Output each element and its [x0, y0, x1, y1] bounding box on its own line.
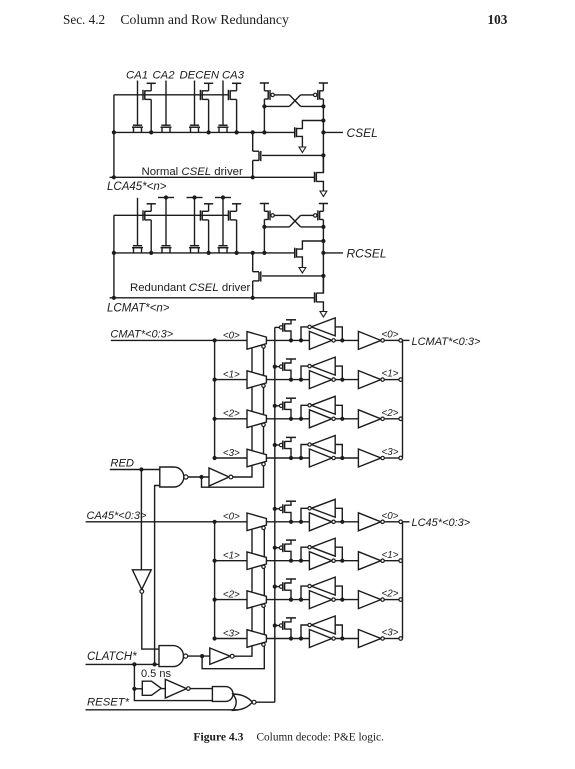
wire output row 3 (LC45) — [384, 638, 399, 640]
node reset line junction row 2 (LC45) — [273, 585, 277, 589]
node feedback junction left row 0 (LC45) — [299, 520, 303, 524]
node left drain junction (Normal CSEL driver) — [262, 104, 266, 108]
latch feedback inverter row 2 (LCMAT) — [311, 396, 335, 414]
wire input column 4 vertical (Redundant CSEL driver) — [222, 198, 224, 246]
node PMOS drain junction row 0 (LC45) — [289, 520, 293, 524]
wire input column 2 vertical (Redundant CSEL driver) — [165, 198, 167, 246]
wire feedback output row 1 (LC45) — [301, 547, 308, 561]
svg-text:CA45*<0:3>: CA45*<0:3> — [87, 510, 148, 522]
wire NMOS chain (Redundant CSEL driver) — [114, 252, 295, 254]
output inverter row 2 (LC45) — [358, 591, 381, 609]
node output junction CSEL — [321, 130, 325, 134]
wire latch output row 3 (LCMAT) — [335, 457, 358, 459]
node MF source junction (Normal CSEL driver) — [251, 175, 255, 179]
terminal circle output row 3 (LCMAT) — [399, 456, 403, 460]
wire MF gate to rail (Redundant CSEL driver) — [262, 275, 323, 277]
tri-state clock bubble row 0 (LC45) — [262, 526, 265, 529]
wire MF source to bottom net (Redundant CSEL driver) — [252, 281, 254, 298]
wire cross-couple right gate (Normal CSEL driver) — [301, 94, 314, 96]
tri-state clock bubble row 3 (LC45) — [262, 643, 265, 646]
wire G1 lower input from CLATCH* — [155, 486, 160, 665]
wire latch output row 2 (LC45) — [335, 599, 358, 601]
svg-text:RCSEL: RCSEL — [347, 247, 387, 261]
node input bus junction row 1 (LCMAT) — [213, 378, 217, 382]
ground keeper (Redundant CSEL driver) — [299, 268, 306, 274]
wire P3 drain to chain (Normal CSEL driver) — [236, 99, 238, 132]
wire PMOS gate rail (Redundant CSEL driver) — [114, 214, 228, 216]
wire left drain rail (Redundant CSEL driver) — [264, 226, 289, 228]
wire delay output to and gate — [190, 688, 212, 690]
svg-text:CLATCH*: CLATCH* — [87, 651, 137, 663]
node MF drain chain junction (Normal CSEL driver) — [251, 130, 255, 134]
power VDD T left of latch pair (Redundant CSEL driver) — [260, 203, 269, 205]
wire output rail vertical (Redundant CSEL driver) — [322, 227, 324, 293]
wire P1 drain to chain (Normal CSEL driver) — [150, 99, 152, 132]
svg-text:<2>: <2> — [382, 408, 399, 419]
wire output row 2 (LCMAT) — [384, 418, 399, 420]
transistor reset PMOS row 2 (LCMAT) — [279, 404, 282, 407]
wire U4 to U5 — [161, 688, 165, 690]
inverter U1 (RED) — [209, 468, 229, 486]
node reset line junction row 3 (LC45) — [273, 623, 277, 627]
node latch output junction row 2 (LC45) — [340, 598, 344, 602]
wire chain to MF drain (Redundant CSEL driver) — [252, 253, 254, 272]
wire MF source to bottom net (Normal CSEL driver) — [252, 160, 254, 177]
wire CMAT* bus vertical — [214, 340, 216, 458]
svg-text:<1>: <1> — [223, 370, 240, 381]
wire P3 drain to chain (Redundant CSEL driver) — [236, 220, 238, 253]
node input bus junction row 0 (LC45) — [213, 520, 217, 524]
transistor reset PMOS row 0 (LC45) — [279, 507, 282, 510]
wire latch output row 0 (LCMAT) — [335, 339, 358, 341]
wire cross-couple diagonal 2 (Redundant CSEL driver) — [289, 215, 300, 227]
node P2 drain junction (Normal CSEL driver) — [207, 130, 211, 134]
wire RED to delay inverter — [140, 470, 142, 570]
tri-state inverter row 2 (LC45) — [247, 591, 266, 609]
latch forward inverter row 2 (LCMAT) — [309, 410, 332, 428]
node feedback junction left row 2 (LC45) — [299, 598, 303, 602]
wire NMOS chain (Normal CSEL driver) — [114, 131, 295, 133]
wire input CA2 vertical (Normal CSEL driver) — [165, 81, 167, 126]
wire tri-state output row 0 (LC45) — [266, 521, 309, 523]
tri-state inverter row 3 (LCMAT) — [247, 449, 266, 467]
svg-text:LC45*<0:3>: LC45*<0:3> — [412, 517, 471, 529]
transistor M2 NMOS pass (Normal CSEL driver) — [161, 126, 172, 128]
wire PMOS gate rail (Normal CSEL driver) — [114, 94, 228, 96]
node latch output junction row 1 (LC45) — [340, 559, 344, 563]
node latch output junction row 3 (LCMAT) — [340, 456, 344, 460]
transistor M2 NMOS pass (Redundant CSEL driver) — [161, 247, 172, 249]
transistor reset PMOS row 1 (LCMAT) — [279, 365, 282, 368]
node reset line junction row 1 (LCMAT) — [273, 365, 277, 369]
nor G4 output bubble — [252, 700, 256, 704]
svg-text:LCA45*<n>: LCA45*<n> — [107, 181, 167, 193]
wire left drain to chain (Normal CSEL driver) — [263, 106, 265, 132]
wire output row 1 (LCMAT) — [384, 379, 399, 381]
transistor P1 PMOS pull-up (Redundant CSEL driver) — [147, 203, 156, 205]
wire reset PMOS gate lead row 2 (LCMAT) — [275, 405, 280, 407]
wire inverted clock line group1 (from G1) — [202, 348, 264, 487]
node right drain junction (Normal CSEL driver) — [321, 104, 325, 108]
wire right drain rail (Redundant CSEL driver) — [301, 226, 324, 228]
latch feedback inverter row 3 (LCMAT) — [311, 436, 335, 454]
wire input row 2 (LC45) — [215, 599, 247, 601]
svg-text:CSEL: CSEL — [347, 126, 378, 140]
wire tri-state output row 2 (LC45) — [266, 599, 309, 601]
wire reset PMOS drain row 2 (LCMAT) — [285, 409, 291, 418]
wire cross-couple diagonal 1 (Normal CSEL driver) — [289, 95, 300, 107]
wire chain to MF drain (Normal CSEL driver) — [252, 132, 254, 151]
svg-text:0.5 ns: 0.5 ns — [141, 668, 171, 680]
wire input row 2 (LCMAT) — [215, 418, 247, 420]
node output junction RCSEL — [321, 251, 325, 255]
transistor PR cross-coupled PMOS right (Redundant CSEL driver) — [322, 204, 324, 212]
svg-text:LCMAT*<0:3>: LCMAT*<0:3> — [412, 336, 481, 348]
node input bus junction row 3 (LCMAT) — [213, 456, 217, 460]
svg-text:CA2: CA2 — [153, 70, 176, 82]
wire left rail vertical (Redundant CSEL driver) — [113, 215, 115, 297]
wire feedback output row 0 (LC45) — [301, 508, 308, 522]
node input bus junction row 2 (LC45) — [213, 598, 217, 602]
wire reset PMOS gate lead row 3 (LCMAT) — [275, 444, 280, 446]
wire latch output row 1 (LCMAT) — [335, 379, 358, 381]
svg-text:<3>: <3> — [382, 628, 399, 639]
transistor reset PMOS row 3 (LCMAT) — [279, 443, 282, 446]
node P3 drain junction (Redundant CSEL driver) — [235, 251, 239, 255]
wire tri-state output row 3 (LC45) — [266, 638, 309, 640]
and gate G3 — [212, 687, 233, 702]
nor gate G4 — [233, 694, 253, 710]
wire bottom net (Redundant CSEL driver) — [110, 297, 315, 299]
wire input column 3 vertical (Redundant CSEL driver) — [194, 198, 196, 246]
tri-state clock bubble row 0 (LCMAT) — [262, 345, 265, 348]
wire tri-state output row 2 (LCMAT) — [266, 418, 309, 420]
svg-text:<3>: <3> — [223, 448, 240, 459]
wire feedback input row 0 (LCMAT) — [335, 327, 342, 341]
node reset line junction row 3 (LCMAT) — [273, 443, 277, 447]
svg-text:DECEN: DECEN — [180, 70, 220, 82]
wire feedback output row 2 (LCMAT) — [301, 405, 308, 419]
node reset line junction row 0 (LC45) — [273, 507, 277, 511]
latch feedback inverter row 3 (LC45) — [311, 616, 335, 634]
wire clock line group1 (from U1) — [233, 348, 252, 477]
tri-state inverter row 1 (LC45) — [247, 552, 266, 570]
svg-text:<2>: <2> — [223, 409, 240, 420]
transistor P3 PMOS pull-up (Normal CSEL driver) — [232, 82, 241, 84]
svg-text:<3>: <3> — [382, 447, 399, 458]
buffer U4 (delay) — [142, 681, 161, 695]
output inverter row 3 (LCMAT) — [358, 449, 381, 467]
wire feedback input row 1 (LCMAT) — [335, 366, 342, 380]
wire cross-couple diagonal 1 (Redundant CSEL driver) — [289, 215, 300, 227]
wire cross-couple right gate (Redundant CSEL driver) — [301, 214, 314, 216]
wire reset PMOS gate lead row 2 (LC45) — [275, 586, 280, 588]
svg-text:<1>: <1> — [223, 551, 240, 562]
wire input row 0 (LCMAT) — [111, 339, 247, 341]
svg-text:103: 103 — [488, 12, 508, 27]
svg-text:Sec. 4.2: Sec. 4.2 — [63, 12, 105, 27]
wire clock line group2 (from U3) — [234, 529, 252, 656]
node PMOS drain junction row 3 (LC45) — [289, 636, 293, 640]
wire reset PMOS drain row 3 (LCMAT) — [285, 449, 291, 458]
wire reset PMOS drain row 3 (LC45) — [285, 629, 291, 638]
transistor M3 NMOS pass (Normal CSEL driver) — [189, 126, 200, 128]
wire output row 0 (LC45) — [384, 521, 399, 523]
wire RED input — [110, 469, 160, 471]
svg-text:<1>: <1> — [382, 550, 399, 561]
ground MB (Normal CSEL driver) — [320, 191, 327, 197]
transistor MB pull-down NMOS (Normal CSEL driver) — [314, 172, 316, 182]
wire input row 3 (LCMAT) — [215, 457, 247, 459]
node MF drain chain junction (Redundant CSEL driver) — [251, 251, 255, 255]
node keeper drain junction (Normal CSEL driver) — [321, 118, 325, 122]
node delay input junction — [132, 687, 136, 691]
node MF gate rail junction (Normal CSEL driver) — [321, 153, 325, 157]
wire cross-couple diagonal 2 (Normal CSEL driver) — [289, 95, 300, 107]
transistor PL cross-coupled PMOS left (Redundant CSEL driver) — [263, 204, 265, 212]
latch feedback inverter row 0 (LC45) — [311, 499, 335, 517]
wire LC45* output bus vertical — [402, 522, 404, 639]
ground MB (Redundant CSEL driver) — [320, 312, 327, 318]
transistor M3 NMOS pass (Redundant CSEL driver) — [189, 247, 200, 249]
node reset line junction row 2 (LCMAT) — [273, 404, 277, 408]
wire P2 drain to chain (Redundant CSEL driver) — [208, 220, 210, 253]
latch feedback inverter row 2 (LC45) — [311, 577, 335, 595]
transistor MF feedback NMOS (Normal CSEL driver) — [253, 150, 259, 152]
node keeper drain junction (Redundant CSEL driver) — [321, 239, 325, 243]
wire input row 1 (LCMAT) — [215, 379, 247, 381]
wire input column 1 vertical (Redundant CSEL driver) — [137, 198, 139, 246]
wire feedback output row 2 (LC45) — [301, 586, 308, 600]
wire output row 1 (LC45) — [384, 560, 399, 562]
transistor M1 NMOS pass (Normal CSEL driver) — [132, 126, 143, 128]
node bottom-left junction (Normal CSEL driver) — [112, 175, 116, 179]
input tap T-bar column 4 (Redundant CSEL driver) — [215, 197, 231, 199]
wire tri-state output row 0 (LCMAT) — [266, 339, 309, 341]
wire LCMAT* output bus vertical — [402, 340, 404, 458]
svg-text:<1>: <1> — [382, 369, 399, 380]
nand G2 output bubble — [184, 654, 188, 658]
wire tri-state output row 3 (LCMAT) — [266, 457, 309, 459]
latch feedback inverter row 1 (LC45) — [311, 538, 335, 556]
wire input row 3 (LC45) — [215, 638, 247, 640]
wire CLATCH* to delay buffer — [134, 664, 212, 700]
wire reset PMOS drain row 2 (LC45) — [285, 590, 291, 599]
terminal circle output row 3 (LC45) — [399, 637, 403, 641]
wire P1 drain to chain (Redundant CSEL driver) — [150, 220, 152, 253]
nand G1 output bubble — [184, 475, 188, 479]
terminal circle output row 1 (LCMAT) — [399, 378, 403, 382]
wire output row 2 (LC45) — [384, 599, 399, 601]
wire feedback output row 0 (LCMAT) — [301, 327, 308, 341]
wire input row 0 (LC45) — [86, 521, 247, 523]
node left drain chain junction (Normal CSEL driver) — [262, 130, 266, 134]
wire output rail vertical (Normal CSEL driver) — [322, 106, 324, 172]
node reset line junction row 1 (LC45) — [273, 546, 277, 550]
svg-text:RED: RED — [110, 457, 134, 469]
wire reset PMOS gate lead row 0 (LC45) — [275, 508, 280, 510]
transistor PL cross-coupled PMOS left (Normal CSEL driver) — [263, 83, 265, 91]
transistor P2 PMOS pull-up (Redundant CSEL driver) — [204, 203, 213, 205]
wire RESET* input — [86, 709, 238, 711]
wire reset PMOS gate lead row 1 (LC45) — [275, 547, 280, 549]
node latch output junction row 0 (LC45) — [340, 520, 344, 524]
tri-state inverter row 1 (LCMAT) — [247, 371, 266, 389]
svg-text:Redundant CSEL driver: Redundant CSEL driver — [130, 282, 251, 294]
wire cross-couple left gate (Normal CSEL driver) — [274, 94, 289, 96]
power VDD T right of latch pair (Redundant CSEL driver) — [319, 203, 328, 205]
node G2 output junction — [200, 654, 204, 658]
svg-text:CA1: CA1 — [126, 70, 148, 82]
tri-state clock bubble row 2 (LCMAT) — [262, 423, 265, 426]
ground keeper (Normal CSEL driver) — [299, 147, 306, 153]
svg-text:Normal CSEL driver: Normal CSEL driver — [142, 166, 243, 178]
tri-state inverter row 3 (LC45) — [247, 630, 266, 648]
input tap T-bar column 2 (Redundant CSEL driver) — [158, 197, 174, 199]
terminal circle output row 0 (LCMAT) — [399, 339, 403, 343]
transistor P2 PMOS pull-up (Normal CSEL driver) — [204, 82, 213, 84]
node left drain chain junction (Redundant CSEL driver) — [262, 251, 266, 255]
wire left drain to chain (Redundant CSEL driver) — [263, 227, 265, 253]
node latch output junction row 2 (LCMAT) — [340, 417, 344, 421]
wire G2 output — [188, 655, 210, 657]
transistor reset PMOS row 3 (LC45) — [279, 624, 282, 627]
node PMOS drain junction row 2 (LC45) — [289, 598, 293, 602]
node chain-left junction (Normal CSEL driver) — [112, 130, 116, 134]
transistor reset PMOS row 1 (LC45) — [279, 546, 282, 549]
tri-state clock bubble row 1 (LCMAT) — [262, 384, 265, 387]
node right drain junction (Redundant CSEL driver) — [321, 225, 325, 229]
svg-text:<0>: <0> — [223, 512, 240, 523]
wire reset PMOS gate lead row 0 (LCMAT) — [275, 326, 280, 328]
node feedback junction left row 1 (LC45) — [299, 559, 303, 563]
wire cross-couple left gate (Redundant CSEL driver) — [274, 214, 289, 216]
node input bus junction row 3 (LC45) — [213, 636, 217, 640]
wire input DECEN vertical (Normal CSEL driver) — [194, 81, 196, 126]
node PMOS drain junction row 1 (LCMAT) — [289, 378, 293, 382]
nand gate G1 (RED enable) — [160, 467, 184, 487]
node feedback junction left row 0 (LCMAT) — [299, 338, 303, 342]
wire output stub RCSEL — [323, 252, 343, 254]
tri-state clock bubble row 2 (LC45) — [262, 604, 265, 607]
wire LC45* output stub — [403, 521, 410, 523]
wire keeper source (Normal CSEL driver) — [297, 136, 303, 147]
tri-state clock bubble row 3 (LCMAT) — [262, 462, 265, 465]
node latch output junction row 1 (LCMAT) — [340, 378, 344, 382]
latch forward inverter row 3 (LC45) — [309, 630, 332, 648]
power VDD T left of latch pair (Normal CSEL driver) — [260, 82, 269, 84]
svg-text:<3>: <3> — [223, 628, 240, 639]
wire keeper source (Redundant CSEL driver) — [297, 257, 303, 268]
node feedback junction left row 3 (LCMAT) — [299, 456, 303, 460]
latch forward inverter row 3 (LCMAT) — [309, 449, 332, 467]
node P2 drain junction (Redundant CSEL driver) — [207, 251, 211, 255]
latch feedback inverter row 0 (LCMAT) — [311, 318, 335, 336]
transistor reset PMOS row 0 (LCMAT) — [279, 326, 282, 329]
wire inverted clock line group2 (from G2) — [202, 530, 264, 669]
inverter U5 (delay) — [165, 679, 186, 698]
node left drain junction (Redundant CSEL driver) — [262, 225, 266, 229]
node MF source junction (Redundant CSEL driver) — [251, 296, 255, 300]
svg-text:Figure 4.3: Figure 4.3 — [193, 731, 243, 744]
tri-state inverter row 0 (LC45) — [247, 513, 266, 531]
transistor MF feedback NMOS (Redundant CSEL driver) — [253, 271, 259, 273]
terminal circle output row 0 (LC45) — [399, 520, 403, 524]
wire output row 3 (LCMAT) — [384, 457, 399, 459]
wire MF gate to rail (Normal CSEL driver) — [262, 154, 323, 156]
node input bus junction row 1 (LC45) — [213, 559, 217, 563]
node feedback junction left row 1 (LCMAT) — [299, 378, 303, 382]
transistor MK keeper NMOS (Redundant CSEL driver) — [294, 248, 296, 258]
latch forward inverter row 0 (LC45) — [309, 513, 332, 531]
transistor M4 NMOS pass (Normal CSEL driver) — [218, 126, 229, 128]
wire tri-state output row 1 (LC45) — [266, 560, 309, 562]
node P1 drain junction (Redundant CSEL driver) — [149, 251, 153, 255]
wire tri-state output row 1 (LCMAT) — [266, 379, 309, 381]
wire feedback input row 0 (LC45) — [335, 508, 342, 522]
wire feedback output row 1 (LCMAT) — [301, 366, 308, 380]
output inverter row 1 (LC45) — [358, 552, 381, 570]
output inverter row 2 (LCMAT) — [358, 410, 381, 428]
inverter U3 (CLATCH) — [210, 648, 231, 664]
node chain-left junction (Redundant CSEL driver) — [112, 251, 116, 255]
node CLATCH* G1 junction — [153, 662, 157, 666]
svg-text:CMAT*<0:3>: CMAT*<0:3> — [110, 329, 173, 341]
node input bus junction row 2 (LCMAT) — [213, 417, 217, 421]
wire feedback output row 3 (LCMAT) — [301, 445, 308, 459]
wire input CA1 vertical (Normal CSEL driver) — [137, 81, 139, 126]
wire latch output row 1 (LC45) — [335, 560, 358, 562]
wire feedback input row 2 (LC45) — [335, 586, 342, 600]
node CLATCH* delay junction — [132, 662, 136, 666]
wire reset control line vertical — [274, 327, 276, 702]
wire feedback input row 3 (LC45) — [335, 625, 342, 639]
wire feedback input row 2 (LCMAT) — [335, 405, 342, 419]
wire U2 output to G2 input — [142, 593, 159, 649]
wire latch output row 2 (LCMAT) — [335, 418, 358, 420]
tri-state inverter row 0 (LCMAT) — [247, 332, 266, 350]
wire output stub CSEL — [323, 131, 343, 133]
transistor P3 PMOS pull-up (Redundant CSEL driver) — [232, 203, 241, 205]
node P1 drain junction (Normal CSEL driver) — [149, 130, 153, 134]
wire reset PMOS drain row 1 (LCMAT) — [285, 370, 291, 379]
latch feedback inverter row 1 (LCMAT) — [311, 357, 335, 375]
transistor M1 NMOS pass (Redundant CSEL driver) — [132, 247, 143, 249]
svg-text:<0>: <0> — [382, 330, 399, 341]
wire output row 0 (LCMAT) — [384, 339, 399, 341]
svg-text:CA3: CA3 — [222, 70, 245, 82]
node latch output junction row 3 (LC45) — [340, 636, 344, 640]
inverter U2 (down) — [132, 570, 151, 590]
node MF gate rail junction (Redundant CSEL driver) — [321, 274, 325, 278]
tri-state inverter row 2 (LCMAT) — [247, 410, 266, 428]
wire input row 1 (LC45) — [215, 560, 247, 562]
latch forward inverter row 1 (LC45) — [309, 552, 332, 570]
svg-text:Column decode: P&E logic.: Column decode: P&E logic. — [257, 732, 385, 744]
wire reset PMOS drain row 1 (LC45) — [285, 551, 291, 560]
wire reset PMOS drain row 0 (LCMAT) — [285, 331, 291, 340]
wire CLATCH* input — [86, 663, 160, 665]
output inverter row 1 (LCMAT) — [358, 371, 381, 389]
svg-text:<0>: <0> — [223, 330, 240, 341]
node PMOS drain junction row 3 (LCMAT) — [289, 456, 293, 460]
wire bottom net (Normal CSEL driver) — [110, 176, 315, 178]
wire CA45* bus vertical — [214, 522, 216, 639]
transistor MK keeper NMOS (Normal CSEL driver) — [294, 127, 296, 137]
wire right drain rail (Normal CSEL driver) — [301, 105, 324, 107]
svg-text:<2>: <2> — [223, 590, 240, 601]
input tap T-bar column 3 (Redundant CSEL driver) — [187, 197, 203, 199]
